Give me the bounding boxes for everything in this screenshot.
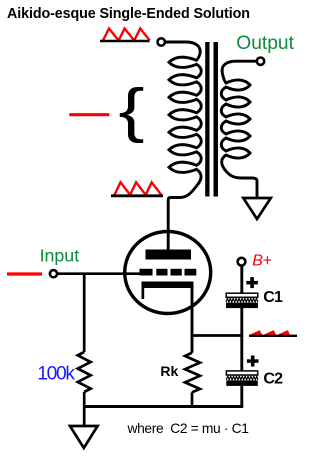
curly brace: [119, 76, 145, 143]
ground (bottom-left): [70, 426, 98, 448]
transformer T1 primary winding: [166, 42, 202, 250]
transformer T1 secondary winding: [221, 61, 257, 198]
svg-text:Input: Input: [40, 245, 80, 265]
resistor Rk: [185, 353, 200, 393]
cathode: [142, 282, 194, 289]
ground (secondary): [243, 198, 270, 219]
terminal input: [50, 270, 57, 277]
capacitor C2: [226, 371, 257, 386]
resistor 100k: [78, 352, 91, 392]
triode V1 envelope: [125, 232, 211, 314]
svg-text:B+: B+: [252, 253, 271, 270]
terminal primary-top: [158, 38, 165, 45]
svg-text:100k: 100k: [37, 364, 75, 385]
svg-text:where C2 = mu · C1: where C2 = mu · C1: [127, 421, 249, 436]
wire bottom rail: [83, 405, 243, 408]
wire C2 to bottom rail: [240, 386, 243, 407]
wire grid-leak branch: [83, 274, 86, 352]
plate: [146, 250, 192, 260]
wire input-to-grid: [57, 272, 139, 275]
terminal output: [257, 58, 264, 65]
sawtooth waveform marker W2 (plate): [115, 182, 162, 195]
svg-text:Aikido-esque Single-Ended Solu: Aikido-esque Single-Ended Solution: [7, 6, 250, 22]
wire cathode junction to rail: [192, 334, 242, 337]
sawtooth waveform marker W1 (top): [103, 29, 150, 41]
sawtooth waveform marker W3 (small, right): [251, 331, 290, 335]
wire junction to C2: [240, 336, 243, 371]
wire Rk bottom: [191, 392, 194, 406]
svg-text:Output: Output: [236, 33, 294, 54]
plus sign C2: [247, 356, 259, 367]
wire B+ to C1: [240, 266, 243, 293]
red marker line (plate tap): [69, 113, 109, 116]
grid dashes: [140, 269, 153, 276]
svg-text:C2: C2: [263, 371, 283, 388]
svg-text:C1: C1: [263, 289, 283, 306]
capacitor C1: [226, 293, 258, 308]
plus sign C1: [246, 277, 258, 288]
wire 100k-to-ground: [83, 392, 86, 427]
wire cathode lead: [191, 287, 194, 353]
terminal B+: [238, 258, 246, 266]
wire C1 to junction: [240, 308, 243, 337]
transformer core: [205, 42, 209, 197]
svg-text:{: {: [119, 76, 145, 143]
svg-text:Rk: Rk: [160, 363, 178, 379]
red marker line (input): [7, 272, 42, 275]
